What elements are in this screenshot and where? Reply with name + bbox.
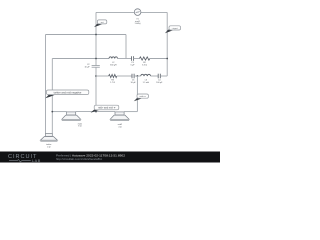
C2 value label (84, 64, 90, 68)
svg-text:mid2: mid2 (118, 124, 122, 126)
R2 value label 3.3 ohm (142, 62, 147, 66)
footer bar (0, 152, 220, 163)
annotation flag: mid+ and mid- (91, 105, 119, 113)
junction (96,111.6) (95, 111, 97, 113)
C3 value label (130, 62, 135, 66)
svg-text:R2: R2 (143, 62, 146, 64)
capacitor C4 (158, 74, 160, 79)
svg-text:V1: V1 (136, 18, 138, 20)
C4 value label 100 uF (156, 80, 163, 84)
wire right vertical (input net x=167) (166, 12, 168, 76)
wire speaker bus right segment (124, 111, 137, 113)
svg-text:100 µF: 100 µF (156, 82, 163, 84)
wire row2 segment 2 (117, 75, 132, 77)
SPK3 value label tweeter 4 ohm (46, 143, 52, 148)
svg-text:1.7 Ω: 1.7 Ω (110, 82, 115, 84)
resistor R2 (139, 57, 149, 60)
junction (96,34.5) (95, 34, 97, 36)
capacitor C2 (on vertical wire x=96) (92, 66, 100, 68)
R3 value label 1.7 ohm (110, 80, 115, 84)
annotation flag: tweeter and mid negative (45, 90, 89, 98)
capacitor C5 (132, 74, 134, 79)
svg-text:LAB: LAB (32, 159, 41, 163)
resistor R3 (109, 74, 117, 77)
junction (167,58.5) (166, 58, 168, 60)
junction (96,76) (95, 75, 97, 77)
svg-text:mid1: mid1 (78, 123, 82, 125)
inductor L3 (141, 74, 151, 76)
svg-text:4 Ω: 4 Ω (118, 126, 122, 128)
wire vertical x=126 (down to row1) (125, 35, 127, 59)
svg-text:1 kHz): 1 kHz) (134, 23, 140, 25)
wire row2 segment 3 (134, 75, 141, 77)
svg-text:http://circuitlab.com/c/d12e5e: http://circuitlab.com/c/d12e5ecefe8bc (56, 157, 103, 161)
wire row1 right segment (150, 58, 167, 60)
wire top-left segment (V1 left to node x=96) (96, 11, 134, 13)
node flag: mid+ (134, 94, 149, 101)
wire row1 left segment (52, 58, 109, 60)
svg-text:1.1 mH: 1.1 mH (143, 82, 150, 84)
wire top-right segment (V1 right to input corner) (141, 11, 167, 13)
wire left vertical x=96 (upper part, above C2) (95, 12, 97, 65)
wire row1 mid segment 1 (118, 58, 132, 60)
wire tweeter left vertical x=45.5 (45, 35, 47, 134)
wire row1 mid segment 2 (134, 58, 140, 60)
SPK1 value label 8 ohm (78, 123, 82, 127)
wire tweeter right vertical x=52.3 (51, 59, 53, 134)
node flag on left vertical: output (94, 20, 107, 27)
SPK2 value label 4 ohm (118, 124, 122, 128)
wire mid horizontal y=34.5 (46, 34, 127, 36)
svg-text:L2: L2 (112, 62, 114, 64)
svg-text:3.3 Ω: 3.3 Ω (142, 64, 147, 66)
footer CircuitLab logo (8, 154, 41, 163)
wire row2 segment 4 (151, 75, 158, 77)
junction (52.3,111.6) (51, 111, 53, 113)
junction (96,58.5) (95, 58, 97, 60)
svg-text:330 µH: 330 µH (110, 64, 117, 66)
voltage source V1 (134, 9, 141, 16)
svg-text:4 Ω: 4 Ω (47, 146, 51, 148)
L3 value label 1.1 mH (143, 80, 150, 84)
speaker SPK1 (mid driver, 8 ohm) (62, 112, 81, 120)
svg-text:C2: C2 (87, 64, 90, 66)
wire speaker bus left segment (52, 111, 66, 113)
speaker SPK3 (tweeter, 4 ohm) (40, 133, 57, 141)
node flag: input (165, 26, 181, 34)
inductor L2 (109, 57, 118, 59)
svg-text:8 Ω: 8 Ω (78, 126, 82, 128)
svg-text:sine(1: sine(1 (135, 21, 140, 23)
wire left vertical x=96 (lower part, below C2) (95, 68, 97, 112)
wire vertical x=137.4 (mid+ branch down to speaker bus) (136, 76, 138, 112)
svg-text:10 µF: 10 µF (84, 66, 90, 68)
wire row2 right segment (160, 75, 167, 77)
svg-text:mid+ and mid- ▾: mid+ and mid- ▾ (98, 106, 115, 109)
capacitor C3 (132, 56, 134, 61)
L2 value label 330 uH (110, 62, 117, 66)
junction (137.4,76) (137, 75, 139, 77)
svg-text:16 µF: 16 µF (131, 82, 137, 84)
C5 value label (131, 80, 137, 84)
wire row2 left segment (96, 75, 109, 77)
speaker SPK2 (mid driver, 4 ohm) (110, 112, 129, 120)
wire speaker bus middle segment (76, 111, 115, 113)
V1 value label (134, 18, 140, 25)
